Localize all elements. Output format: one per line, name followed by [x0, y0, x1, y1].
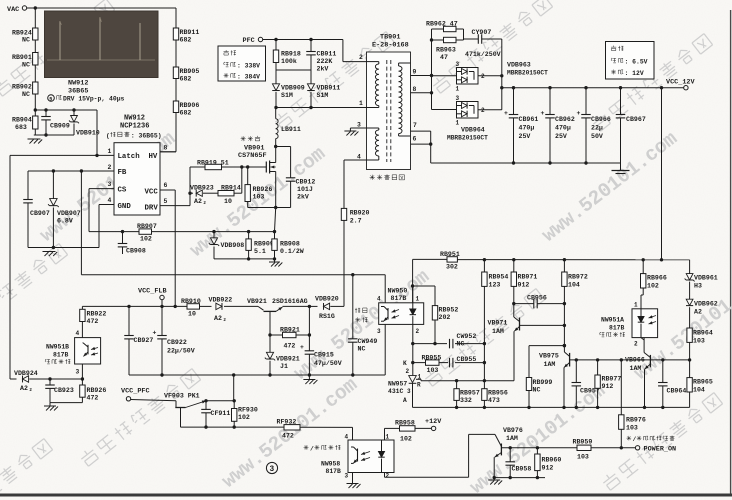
- svg-text:472: 472: [282, 433, 294, 440]
- node VCC_12V terminal: [684, 86, 688, 90]
- svg-text:VDB961: VDB961: [694, 275, 718, 282]
- diode VDB909: [272, 84, 279, 91]
- svg-text:VDB921: VDB921: [276, 356, 300, 363]
- transformer secondary winding: [399, 66, 402, 71]
- svg-text:RB906: RB906: [180, 102, 200, 109]
- svg-text:36B65: 36B65: [68, 88, 88, 96]
- label power on signal: [627, 437, 632, 439]
- wire HV column: [175, 8, 177, 28]
- wire NW958 pin3 gnd: [352, 473, 354, 484]
- resistor RB901: [33, 53, 38, 66]
- resistor RB972: [563, 260, 565, 272]
- svg-text:RB965: RB965: [693, 379, 713, 386]
- svg-text:: 36B65): : 36B65): [131, 133, 162, 140]
- svg-text:222K: 222K: [317, 58, 333, 65]
- svg-text:VF903 PK1: VF903 PK1: [164, 393, 200, 400]
- transformer TB901 box: [367, 52, 411, 170]
- wire pin5 DRV: [160, 205, 190, 207]
- svg-text:VDB911: VDB911: [317, 85, 341, 92]
- svg-text:5: 5: [164, 198, 168, 205]
- svg-text:682: 682: [180, 75, 192, 82]
- svg-text:RB919 51: RB919 51: [197, 160, 229, 167]
- svg-text:RB907: RB907: [137, 223, 157, 230]
- svg-text:RB976: RB976: [626, 417, 646, 424]
- svg-text:TB901: TB901: [380, 34, 400, 42]
- ground: [620, 163, 622, 170]
- svg-text:RB958: RB958: [395, 420, 415, 427]
- svg-text:H3: H3: [694, 283, 702, 290]
- svg-text:470μ: 470μ: [555, 125, 571, 132]
- op-amp U1 NW912 NCP1236 box: [114, 143, 160, 215]
- resistor RB963: [432, 39, 444, 41]
- svg-text:1: 1: [359, 100, 363, 107]
- diode VDB922: [200, 305, 212, 307]
- svg-text:302: 302: [446, 264, 458, 271]
- svg-text:CB908: CB908: [126, 248, 146, 255]
- label circled 5: [48, 95, 55, 102]
- capacitor CB923: [49, 379, 51, 385]
- svg-text:VCC_12V: VCC_12V: [666, 79, 695, 87]
- watermark: [36, 127, 180, 247]
- svg-text:RB918: RB918: [281, 51, 301, 58]
- wire control gnd rail: [413, 406, 690, 408]
- svg-text:A: A: [403, 397, 407, 404]
- diode VDB924: [23, 376, 29, 382]
- border frame right: [730, 10, 732, 494]
- resistor RB957: [456, 381, 458, 389]
- svg-text:RS1G: RS1G: [319, 313, 335, 320]
- resistor RB904: [33, 116, 38, 129]
- wire NW958 pin1: [384, 428, 386, 440]
- inductor LB911: [275, 139, 277, 147]
- capacitor CB961: [513, 88, 515, 115]
- wire top rail right: [413, 258, 447, 260]
- svg-text:NC: NC: [22, 37, 30, 44]
- wire VF903 emitter row: [206, 400, 234, 402]
- label protection opto B: [44, 359, 47, 361]
- wire TL431 ref row: [421, 380, 514, 382]
- capacitor CY907: [477, 34, 479, 44]
- svg-text:3: 3: [407, 388, 411, 395]
- svg-text:104: 104: [568, 282, 580, 289]
- svg-text:4: 4: [377, 296, 381, 303]
- wire pin8: [411, 92, 432, 94]
- resistor RB914: [218, 191, 234, 196]
- svg-text:2.7: 2.7: [350, 218, 362, 225]
- svg-text:VDB910: VDB910: [76, 130, 100, 137]
- diode VDB908: [213, 232, 215, 238]
- watermark: [601, 392, 723, 492]
- wire latch row: [10, 378, 17, 380]
- wire VDB964 out: [478, 109, 502, 111]
- svg-text:102: 102: [140, 236, 152, 243]
- svg-text:6: 6: [164, 182, 168, 189]
- svg-text:3: 3: [377, 328, 381, 335]
- svg-text:25V: 25V: [555, 133, 567, 140]
- svg-text:/: /: [633, 436, 637, 443]
- wire K node row: [412, 344, 414, 376]
- svg-text:CS: CS: [118, 186, 127, 194]
- svg-text:CB912: CB912: [296, 179, 316, 186]
- svg-text:NW951B: NW951B: [46, 344, 69, 351]
- label switching transformer: [370, 176, 375, 178]
- svg-text:912: 912: [542, 465, 554, 472]
- svg-text:RB901: RB901: [12, 54, 32, 61]
- wire VB975 base row: [570, 359, 690, 361]
- svg-text:2SD1616AG: 2SD1616AG: [272, 298, 308, 305]
- svg-text:NW950: NW950: [388, 288, 408, 295]
- svg-text:VDB962: VDB962: [694, 301, 718, 308]
- svg-text:CB911: CB911: [317, 51, 337, 58]
- transformer primary winding: [375, 64, 378, 69]
- svg-text:6.8V: 6.8V: [57, 218, 73, 225]
- svg-text:VDB920: VDB920: [315, 296, 339, 303]
- wire emitter row: [494, 477, 545, 479]
- svg-text:4: 4: [357, 154, 361, 161]
- svg-text:102: 102: [238, 414, 250, 421]
- svg-text:VDB964: VDB964: [461, 127, 485, 134]
- wire snubber mid: [276, 69, 311, 71]
- resistor RB919: [190, 166, 205, 168]
- resistor RF930: [233, 401, 235, 409]
- svg-text:+: +: [504, 110, 508, 117]
- wire pin2 FB: [28, 170, 114, 172]
- svg-text:9: 9: [413, 69, 417, 76]
- ground: [347, 483, 359, 485]
- svg-text:202: 202: [439, 314, 451, 321]
- svg-text:A2: A2: [694, 309, 702, 316]
- circled 3 page mark: [266, 462, 277, 473]
- svg-text:103: 103: [253, 193, 265, 200]
- wire pin6: [411, 143, 431, 145]
- resistor RB962: [432, 28, 444, 30]
- capacitor CB956: [514, 303, 534, 305]
- opto NW950 transistor side: [387, 308, 389, 320]
- resistor RB926: [247, 167, 249, 185]
- svg-text:S1M: S1M: [317, 92, 329, 99]
- resistor RB964: [687, 328, 692, 342]
- ground: [308, 375, 310, 380]
- svg-text:RB960: RB960: [542, 457, 562, 464]
- opto NW951A led: [638, 316, 644, 322]
- svg-text:332: 332: [460, 397, 472, 404]
- diode VDB911: [307, 84, 314, 91]
- node PFC terminal: [258, 37, 262, 41]
- opto-coupler NW958 box: [348, 440, 394, 473]
- watermark: [290, 265, 434, 385]
- capacitor CB907: [23, 199, 33, 201]
- svg-text:RF930: RF930: [238, 407, 258, 414]
- svg-text:1: 1: [418, 374, 422, 381]
- svg-text:(: (: [106, 133, 110, 140]
- wire RB999 branch: [529, 345, 564, 347]
- svg-text:912: 912: [518, 282, 530, 289]
- svg-text:VDB924: VDB924: [14, 370, 38, 377]
- ground: [43, 251, 56, 253]
- svg-text:VCC_FLB: VCC_FLB: [138, 288, 167, 296]
- opto-coupler NW950 box: [379, 303, 424, 325]
- svg-text:102: 102: [647, 283, 659, 290]
- resistor RB966: [642, 260, 644, 274]
- svg-text:RB963: RB963: [436, 47, 456, 54]
- oscilloscope image: [45, 11, 159, 78]
- svg-text:471k/250V: 471k/250V: [465, 51, 501, 58]
- svg-text:POWER_ON: POWER_ON: [644, 446, 677, 454]
- svg-text:/: /: [310, 446, 314, 453]
- svg-text:VDB923: VDB923: [190, 184, 214, 191]
- box measured voltages 2: [606, 42, 655, 80]
- svg-text:472: 472: [87, 318, 99, 325]
- svg-text:8: 8: [413, 86, 417, 93]
- svg-text:RB910: RB910: [181, 298, 201, 305]
- svg-text:RB964: RB964: [693, 330, 713, 337]
- wire flb gnd rail: [129, 374, 385, 376]
- wire DRV vertical: [189, 167, 191, 206]
- capacitor CW949: [352, 275, 354, 339]
- opto NW958 transistor side: [357, 449, 359, 462]
- svg-text:2: 2: [406, 368, 410, 375]
- svg-text:VB921: VB921: [247, 298, 267, 305]
- svg-text:470μ: 470μ: [519, 125, 535, 132]
- svg-text:1: 1: [456, 86, 460, 93]
- wire VF903 collector row: [181, 426, 285, 428]
- watermark: [538, 127, 682, 247]
- svg-text:104: 104: [693, 387, 705, 394]
- svg-text:A2: A2: [214, 315, 222, 322]
- capacitor CB927: [128, 306, 130, 335]
- wire NW958 pin2: [384, 473, 386, 478]
- resistor RB920: [341, 208, 346, 220]
- svg-text:NC: NC: [22, 62, 30, 69]
- diode VDB921 zener: [269, 335, 271, 353]
- svg-text:4: 4: [108, 197, 112, 204]
- watermark: [0, 438, 53, 500]
- wire pin8 HV: [160, 151, 176, 153]
- wire sense bottom rail: [214, 258, 275, 260]
- svg-text:RB908: RB908: [280, 240, 300, 247]
- svg-text:K: K: [403, 360, 407, 367]
- svg-text:CB964: CB964: [667, 388, 687, 395]
- watermark: [0, 0, 115, 98]
- svg-text:RB955: RB955: [422, 355, 442, 362]
- svg-text:NC: NC: [358, 346, 366, 353]
- svg-text:CS7N65F: CS7N65F: [238, 152, 267, 160]
- opto-coupler NW951A box: [632, 309, 658, 338]
- svg-text:RB920: RB920: [350, 210, 370, 217]
- capacitor CB955: [449, 358, 451, 368]
- svg-text:817B: 817B: [53, 352, 69, 359]
- svg-text:CW949: CW949: [358, 338, 378, 345]
- transistor VB901 MOSFET: [265, 162, 267, 173]
- svg-text:101J: 101J: [297, 186, 313, 193]
- svg-text:CB955: CB955: [457, 356, 477, 363]
- node +12V terminal: [431, 426, 435, 430]
- svg-text:683: 683: [15, 124, 27, 131]
- svg-text:CB961: CB961: [519, 116, 539, 123]
- svg-text:VCC: VCC: [145, 188, 159, 196]
- box measured voltages 1: [218, 46, 266, 81]
- svg-text:E-28-0168: E-28-0168: [372, 42, 409, 50]
- watermark: [431, 0, 553, 95]
- svg-text:VDB922: VDB922: [209, 297, 233, 304]
- svg-text:RB922: RB922: [87, 311, 107, 318]
- wire sense rail: [152, 231, 275, 233]
- diode VDB923: [190, 192, 193, 194]
- svg-text:3: 3: [357, 122, 361, 129]
- svg-text:NC: NC: [533, 387, 541, 394]
- resistor RB960: [536, 448, 538, 454]
- capacitor CB958: [509, 448, 511, 462]
- svg-text:1AM: 1AM: [544, 361, 556, 368]
- wire source node: [274, 206, 277, 209]
- wire FB down: [80, 171, 82, 275]
- ground: [274, 259, 276, 262]
- svg-text:1AM: 1AM: [630, 365, 642, 372]
- resistor RB902: [33, 82, 38, 94]
- capacitor CB915: [308, 306, 310, 335]
- resistor RB952: [432, 306, 437, 320]
- capacitor CB967: [620, 88, 622, 115]
- wire pin3 gnd: [357, 127, 367, 129]
- capacitor CB957: [575, 360, 577, 383]
- svg-text:+: +: [541, 110, 545, 117]
- svg-text:VB975: VB975: [539, 353, 559, 360]
- wire FB cap branch: [27, 171, 29, 200]
- resistor RB956: [483, 381, 485, 389]
- shunt-regulator NW957 431C: [409, 376, 417, 383]
- wire pin9: [411, 75, 432, 77]
- svg-text:VDB908: VDB908: [221, 242, 245, 249]
- wire NW950 pin3 down: [384, 324, 386, 375]
- capacitor CB911: [310, 40, 312, 52]
- svg-text:3: 3: [108, 181, 112, 188]
- resistor RF932: [284, 425, 300, 430]
- svg-text:5.1: 5.1: [254, 248, 266, 255]
- svg-text:1AM: 1AM: [506, 435, 518, 442]
- svg-text:RB952: RB952: [439, 307, 459, 314]
- svg-text:FB: FB: [118, 169, 127, 177]
- svg-text:CB907: CB907: [30, 210, 50, 217]
- wire NW950 pin2 down: [412, 324, 414, 343]
- svg-text:2kV: 2kV: [297, 194, 309, 201]
- svg-text:RB921: RB921: [280, 327, 300, 334]
- node junction: [34, 108, 37, 111]
- transistor VB971: [513, 304, 515, 317]
- svg-text:10: 10: [188, 311, 196, 318]
- svg-text:RB954: RB954: [489, 274, 509, 281]
- diode VDB910: [73, 110, 75, 116]
- diode VDB963 dual: [457, 68, 479, 85]
- svg-text:CW952: CW952: [457, 333, 477, 340]
- wire VB976 base row: [501, 447, 577, 449]
- svg-text:RB914: RB914: [221, 184, 241, 191]
- svg-text:2kV: 2kV: [317, 66, 329, 73]
- capacitor CF911: [205, 401, 207, 410]
- capacitor CB908: [122, 232, 124, 244]
- svg-text:A2: A2: [20, 385, 28, 392]
- capacitor CW952: [449, 339, 451, 349]
- svg-text:R: R: [417, 382, 421, 389]
- resistor RB954: [483, 260, 485, 272]
- node VAC terminal: [22, 6, 26, 10]
- svg-text:RB951: RB951: [440, 251, 460, 258]
- svg-text:MBRB20150CT: MBRB20150CT: [507, 70, 548, 77]
- svg-text:PFC: PFC: [243, 37, 255, 45]
- wire RB pair right: [463, 29, 465, 40]
- resistor RB959: [577, 445, 591, 450]
- resistor RB924: [33, 28, 38, 40]
- wire left latch vertical: [9, 155, 11, 379]
- svg-text:LB911: LB911: [281, 126, 301, 133]
- transistor VB966: [649, 355, 651, 367]
- label regulator opto: [355, 308, 357, 313]
- wire pin4 GND: [99, 204, 114, 206]
- ground: [44, 405, 56, 407]
- svg-text:VB966: VB966: [625, 357, 645, 364]
- transistor VB976: [500, 444, 502, 456]
- svg-text:472: 472: [87, 395, 99, 402]
- svg-text:RB971: RB971: [518, 274, 538, 281]
- svg-text:817B: 817B: [326, 468, 342, 475]
- svg-text:NW912: NW912: [68, 80, 88, 88]
- svg-text:NW957: NW957: [388, 381, 407, 388]
- wire PFC rail: [263, 39, 343, 41]
- svg-text:NW951A: NW951A: [601, 317, 624, 324]
- wire VAC top: [27, 7, 176, 9]
- wire VB976 emitter gnd: [493, 476, 496, 479]
- svg-text:102: 102: [400, 436, 412, 443]
- resistor RB906: [173, 101, 178, 113]
- wire pin6 VCC: [160, 189, 175, 191]
- svg-text:3: 3: [76, 369, 80, 376]
- transformer aux winding: [375, 130, 378, 135]
- svg-text:1: 1: [386, 434, 390, 441]
- svg-text:CB909: CB909: [50, 123, 70, 130]
- svg-text:1AM: 1AM: [492, 328, 504, 335]
- svg-text:RB926: RB926: [253, 186, 273, 193]
- svg-text:HV: HV: [149, 153, 158, 161]
- wire FB primary rail: [81, 274, 385, 276]
- svg-text:J1: J1: [280, 363, 288, 370]
- wire pin4: [344, 159, 367, 161]
- svg-text:3: 3: [456, 61, 460, 68]
- svg-text:S1M: S1M: [281, 92, 293, 99]
- wire snubber top rail: [35, 109, 97, 111]
- svg-text:1: 1: [456, 120, 460, 127]
- svg-text:RB924: RB924: [12, 29, 32, 36]
- svg-text:47μ/50V: 47μ/50V: [314, 360, 342, 367]
- svg-text:817B: 817B: [609, 325, 625, 332]
- watermark: [423, 288, 545, 388]
- capacitor CB962: [549, 88, 551, 115]
- svg-text:VDB907: VDB907: [57, 210, 81, 217]
- diode VDB920: [308, 305, 311, 308]
- svg-text:NC: NC: [457, 341, 465, 348]
- svg-text:103: 103: [577, 454, 589, 461]
- svg-text:RB911: RB911: [180, 29, 200, 36]
- label on-off opto: [304, 446, 309, 448]
- svg-text:VDB963: VDB963: [507, 62, 531, 69]
- wire VB975 emitter down: [563, 371, 565, 407]
- watermark: [218, 373, 362, 493]
- wire VB921 base: [268, 333, 271, 336]
- svg-text:NCP1236: NCP1236: [120, 123, 149, 131]
- svg-text:817B: 817B: [391, 295, 407, 302]
- svg-text:103: 103: [626, 425, 638, 432]
- wire to latch: [96, 110, 98, 155]
- capacitor CB964: [662, 360, 664, 383]
- svg-text:CB927: CB927: [134, 337, 154, 344]
